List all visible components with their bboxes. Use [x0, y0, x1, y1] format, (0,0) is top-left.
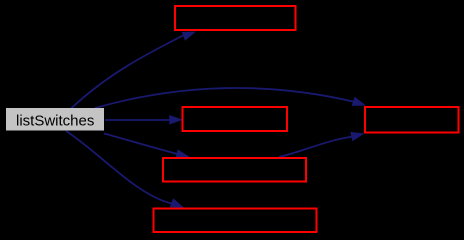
node3 (called function) [183, 107, 288, 131]
edge listSwitches->node2 [71, 32, 196, 109]
node listSwitches [6, 108, 104, 131]
node4 (called function) [163, 158, 306, 182]
edge listSwitches->node5 [95, 88, 366, 108]
node5 (called function) [365, 107, 459, 133]
edge listSwitches->node4 [104, 134, 190, 159]
svg-text:listSwitches: listSwitches [16, 113, 94, 130]
node2 (called function) [175, 6, 296, 30]
edge listSwitches->node6 [66, 131, 184, 208]
node6 (called function) [154, 209, 317, 233]
edge node4->node5 [279, 132, 365, 157]
edge listSwitches->node3 [105, 115, 183, 125]
